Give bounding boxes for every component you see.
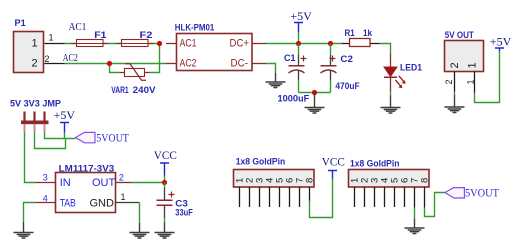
P1 pin 2 stub — [45, 54, 65, 64]
svg-text:1x8 GoldPin: 1x8 GoldPin — [350, 159, 400, 170]
svg-text:DC+: DC+ — [230, 38, 250, 50]
header JP2 1x8 GoldPin — [234, 157, 316, 188]
LED LED1 — [384, 54, 423, 92]
svg-text:1k: 1k — [363, 28, 373, 39]
wire TAB to ground — [24, 203, 36, 223]
connector J2 5V OUT — [445, 30, 484, 72]
ground (5V OUT) — [445, 95, 465, 113]
svg-text:F1: F1 — [94, 30, 107, 41]
wire DC- to ground — [266, 64, 276, 74]
ground (header JP3) — [405, 219, 425, 234]
header JP3 pin 8 — [424, 187, 426, 208]
svg-text:F2: F2 — [140, 30, 153, 41]
svg-text:3: 3 — [43, 173, 48, 183]
wire +5V rail — [266, 43, 342, 45]
regulator U2 LM1117-3V3 — [56, 164, 116, 213]
junction VCC / C3 — [162, 180, 167, 185]
header JP3 pins 1-6 — [355, 187, 405, 207]
LM1117 pin OUT stub — [116, 173, 132, 183]
svg-text:+5V: +5V — [490, 34, 512, 48]
header JP3 pin 7 — [414, 187, 416, 208]
svg-text:4: 4 — [43, 194, 48, 204]
header JP2 pins 1-7 — [240, 187, 300, 207]
capacitor C1 — [278, 44, 310, 105]
svg-text:470uF: 470uF — [335, 81, 359, 92]
wire LED cathode — [390, 92, 392, 96]
svg-text:TAB: TAB — [60, 198, 76, 210]
ground (C3) — [155, 223, 175, 239]
varistor VAR1 — [111, 64, 156, 96]
svg-text:1: 1 — [121, 192, 126, 202]
HLK pin AC1 stub — [166, 43, 177, 45]
resistor R1 — [342, 28, 380, 46]
wire AC2 net — [63, 52, 166, 64]
fuse F1 — [71, 30, 109, 47]
wire OUT to VCC junction — [131, 182, 165, 184]
wire varistor branch right — [150, 44, 160, 73]
svg-text:VCC: VCC — [322, 154, 345, 168]
supply +5V symbol (jumper) — [54, 108, 76, 132]
wire J2 pin2 to ground — [454, 92, 456, 96]
ground (HLK DC-) — [266, 73, 286, 88]
wire jumper pin2 loop — [35, 132, 66, 149]
svg-text:LM1117-3V3: LM1117-3V3 — [59, 164, 115, 175]
junction C1 — [296, 41, 301, 46]
capacitor C2 — [321, 44, 360, 93]
wire R1 to LED — [380, 44, 391, 55]
wire jumper pin3 to 5VOUT flag — [45, 132, 76, 139]
svg-text:5VOUT: 5VOUT — [465, 185, 500, 199]
LM1117 pin GND stub — [116, 192, 140, 203]
J2 pin 1 stub — [466, 72, 476, 93]
svg-text:33uF: 33uF — [175, 207, 193, 218]
svg-text:+5V: +5V — [290, 9, 312, 23]
svg-text:+5V: +5V — [54, 108, 76, 122]
svg-text:GND: GND — [90, 198, 115, 210]
LM1117 pin IN stub — [36, 173, 56, 183]
svg-text:1: 1 — [49, 33, 54, 43]
junction C2 — [328, 41, 333, 46]
svg-text:AC1: AC1 — [180, 38, 197, 50]
svg-text:2: 2 — [45, 54, 50, 64]
svg-text:2: 2 — [449, 62, 461, 68]
connector P1 — [14, 18, 44, 73]
svg-text:240V: 240V — [133, 85, 157, 96]
svg-text:8: 8 — [419, 178, 430, 183]
wire varistor branch left — [110, 64, 120, 73]
supply +5V symbol — [290, 9, 312, 33]
HLK pin AC2 stub — [166, 63, 177, 65]
HLK pin DC- stub — [252, 63, 266, 65]
svg-text:HLK-PM01: HLK-PM01 — [175, 23, 215, 34]
ground (capacitor rail) — [305, 93, 325, 114]
svg-text:2: 2 — [32, 58, 38, 70]
J2 pin 2 stub — [444, 72, 455, 92]
junction AC2 — [107, 61, 112, 66]
HLK pin DC+ stub — [252, 43, 266, 45]
svg-text:8: 8 — [304, 178, 315, 183]
wire JP3 pin8 to 5VOUT flag — [425, 193, 446, 217]
module U1 HLK-PM01 — [175, 23, 252, 71]
supply +5V symbol (right) — [490, 34, 512, 51]
svg-text:5V OUT: 5V OUT — [445, 30, 474, 41]
svg-text:AC1: AC1 — [69, 21, 87, 33]
ground (TAB) — [14, 222, 34, 238]
ground (LM GND) — [130, 223, 150, 238]
fuse F2 — [116, 30, 155, 47]
svg-text:1: 1 — [32, 38, 38, 50]
label flag 5VOUT (jumper) — [76, 130, 130, 144]
svg-text:1000uF: 1000uF — [278, 94, 310, 105]
svg-text:OUT: OUT — [92, 177, 116, 189]
header JP2 pin 8 — [309, 187, 311, 201]
supply VCC symbol (right) — [322, 154, 345, 178]
svg-text:AC2: AC2 — [180, 58, 197, 70]
LM1117 pin TAB stub — [36, 194, 56, 204]
svg-text:C2: C2 — [340, 54, 353, 65]
capacitor C3 — [157, 183, 193, 223]
label flag 5VOUT (header) — [445, 185, 500, 199]
wire JP2 pin8 to VCC — [310, 179, 333, 218]
svg-text:LED1: LED1 — [400, 63, 423, 74]
wire jumper pin1 to IN — [25, 132, 36, 183]
jumper JP1 5V 3V3 JMP — [10, 99, 62, 132]
svg-text:1x8 GoldPin: 1x8 GoldPin — [236, 157, 286, 168]
junction AC1 — [157, 41, 162, 46]
header JP3 1x8 GoldPin — [349, 159, 431, 188]
svg-text:VCC: VCC — [154, 148, 177, 162]
ground (LED) — [381, 96, 401, 114]
svg-text:DC-: DC- — [231, 58, 249, 70]
junction bottom rail — [312, 90, 317, 95]
svg-text:VAR1: VAR1 — [111, 85, 129, 96]
svg-text:1: 1 — [466, 79, 476, 84]
svg-text:P1: P1 — [15, 18, 27, 29]
svg-text:AC2: AC2 — [63, 52, 78, 64]
svg-text:C1: C1 — [284, 53, 296, 64]
wire JP3 pin7 to ground — [414, 208, 416, 220]
wire GND pin down — [139, 203, 141, 224]
svg-text:2: 2 — [119, 173, 124, 183]
wire J2 pin1 to +5V — [475, 51, 500, 103]
svg-text:2: 2 — [444, 79, 454, 84]
svg-text:1: 1 — [467, 62, 479, 68]
svg-text:R1: R1 — [345, 28, 356, 39]
P1 pin 1 stub — [45, 33, 65, 44]
svg-text:5VOUT: 5VOUT — [96, 130, 129, 144]
wire AC1 net — [65, 21, 158, 44]
svg-text:IN: IN — [60, 177, 71, 189]
supply VCC symbol (left) — [154, 148, 177, 183]
wire +5V stem — [298, 33, 300, 44]
wire capacitor bottom rail — [299, 92, 331, 94]
